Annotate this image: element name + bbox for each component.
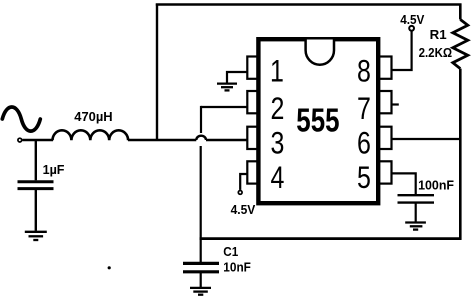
- svg-text:4: 4: [270, 159, 284, 194]
- wire 100nF to ground: [415, 204, 417, 222]
- wire 1uF branch from main node: [35, 139, 37, 180]
- svg-text:3: 3: [270, 125, 284, 160]
- pin box 1: [247, 57, 260, 79]
- wire C1 to ground: [200, 273, 202, 287]
- IC U1 555 timer body: [258, 39, 378, 203]
- pin box 6: [377, 127, 392, 149]
- svg-text:2.2KΩ: 2.2KΩ: [419, 45, 453, 60]
- wire main horizontal left of inductor: [22, 139, 53, 141]
- stray dot: [108, 266, 111, 269]
- wire right rail lower segment: [459, 69, 462, 240]
- AC sine symbol: [2, 107, 40, 131]
- capacitor C1 10nF: [183, 263, 219, 271]
- wire main horizontal hop to pin3: [206, 139, 248, 141]
- svg-text:C1: C1: [223, 244, 238, 259]
- IC notch: [306, 40, 334, 65]
- svg-text:5: 5: [357, 159, 371, 194]
- terminal 4.5V top circle: [409, 26, 414, 31]
- wire pin5 to 100nF: [393, 172, 416, 194]
- svg-text:10nF: 10nF: [223, 260, 251, 275]
- svg-text:2: 2: [270, 90, 284, 125]
- svg-text:1µF: 1µF: [43, 162, 65, 177]
- wire pin1 to ground: [227, 71, 248, 83]
- wire pin7 stub: [393, 103, 399, 105]
- pin box 3: [247, 127, 260, 149]
- wire main horizontal inductor to hop: [128, 139, 196, 141]
- capacitor 100nF: [398, 195, 435, 202]
- wire pin2 horizontal: [201, 106, 248, 108]
- terminal circle left: [18, 138, 22, 142]
- svg-text:6: 6: [357, 125, 371, 160]
- wire pin2 vertical above hop: [200, 106, 202, 133]
- wire pin4 to 4.5V terminal: [240, 173, 247, 190]
- pin box 8: [377, 57, 392, 79]
- wire pin6 to right rail: [393, 138, 461, 140]
- ground (100nF): [405, 223, 426, 230]
- svg-text:555: 555: [296, 103, 339, 140]
- svg-text:4.5V: 4.5V: [231, 202, 256, 217]
- svg-text:7: 7: [357, 90, 371, 125]
- wire left vertical from top rail to main node: [156, 4, 158, 141]
- wire right rail upper segment: [459, 4, 462, 20]
- wire hop over vertical (no connection): [196, 136, 206, 140]
- terminal 4.5V bottom circle: [238, 191, 242, 195]
- pin box 4: [247, 161, 260, 183]
- svg-text:R1: R1: [430, 27, 447, 42]
- svg-text:1: 1: [270, 53, 284, 88]
- wire pin8 to 4.5V terminal: [393, 31, 412, 71]
- pin box 2: [247, 91, 260, 113]
- capacitor 1uF: [18, 182, 54, 189]
- wire 1uF to ground: [35, 190, 37, 231]
- ground (1uF): [25, 232, 47, 240]
- resistor R1: [453, 20, 468, 69]
- inductor L1 470uH: [53, 130, 129, 140]
- ground (C1): [190, 288, 211, 295]
- pin box 5: [377, 161, 392, 183]
- svg-text:4.5V: 4.5V: [400, 12, 424, 27]
- wire vertical hop to C1 and bottom rail junction: [200, 146, 202, 263]
- wire bottom rail: [200, 237, 462, 240]
- pin box 7: [377, 91, 392, 113]
- wire top rail: [156, 3, 462, 6]
- ground (pin 1): [217, 84, 237, 91]
- svg-text:470µH: 470µH: [74, 109, 112, 124]
- svg-text:8: 8: [357, 53, 371, 88]
- svg-text:100nF: 100nF: [418, 177, 454, 192]
